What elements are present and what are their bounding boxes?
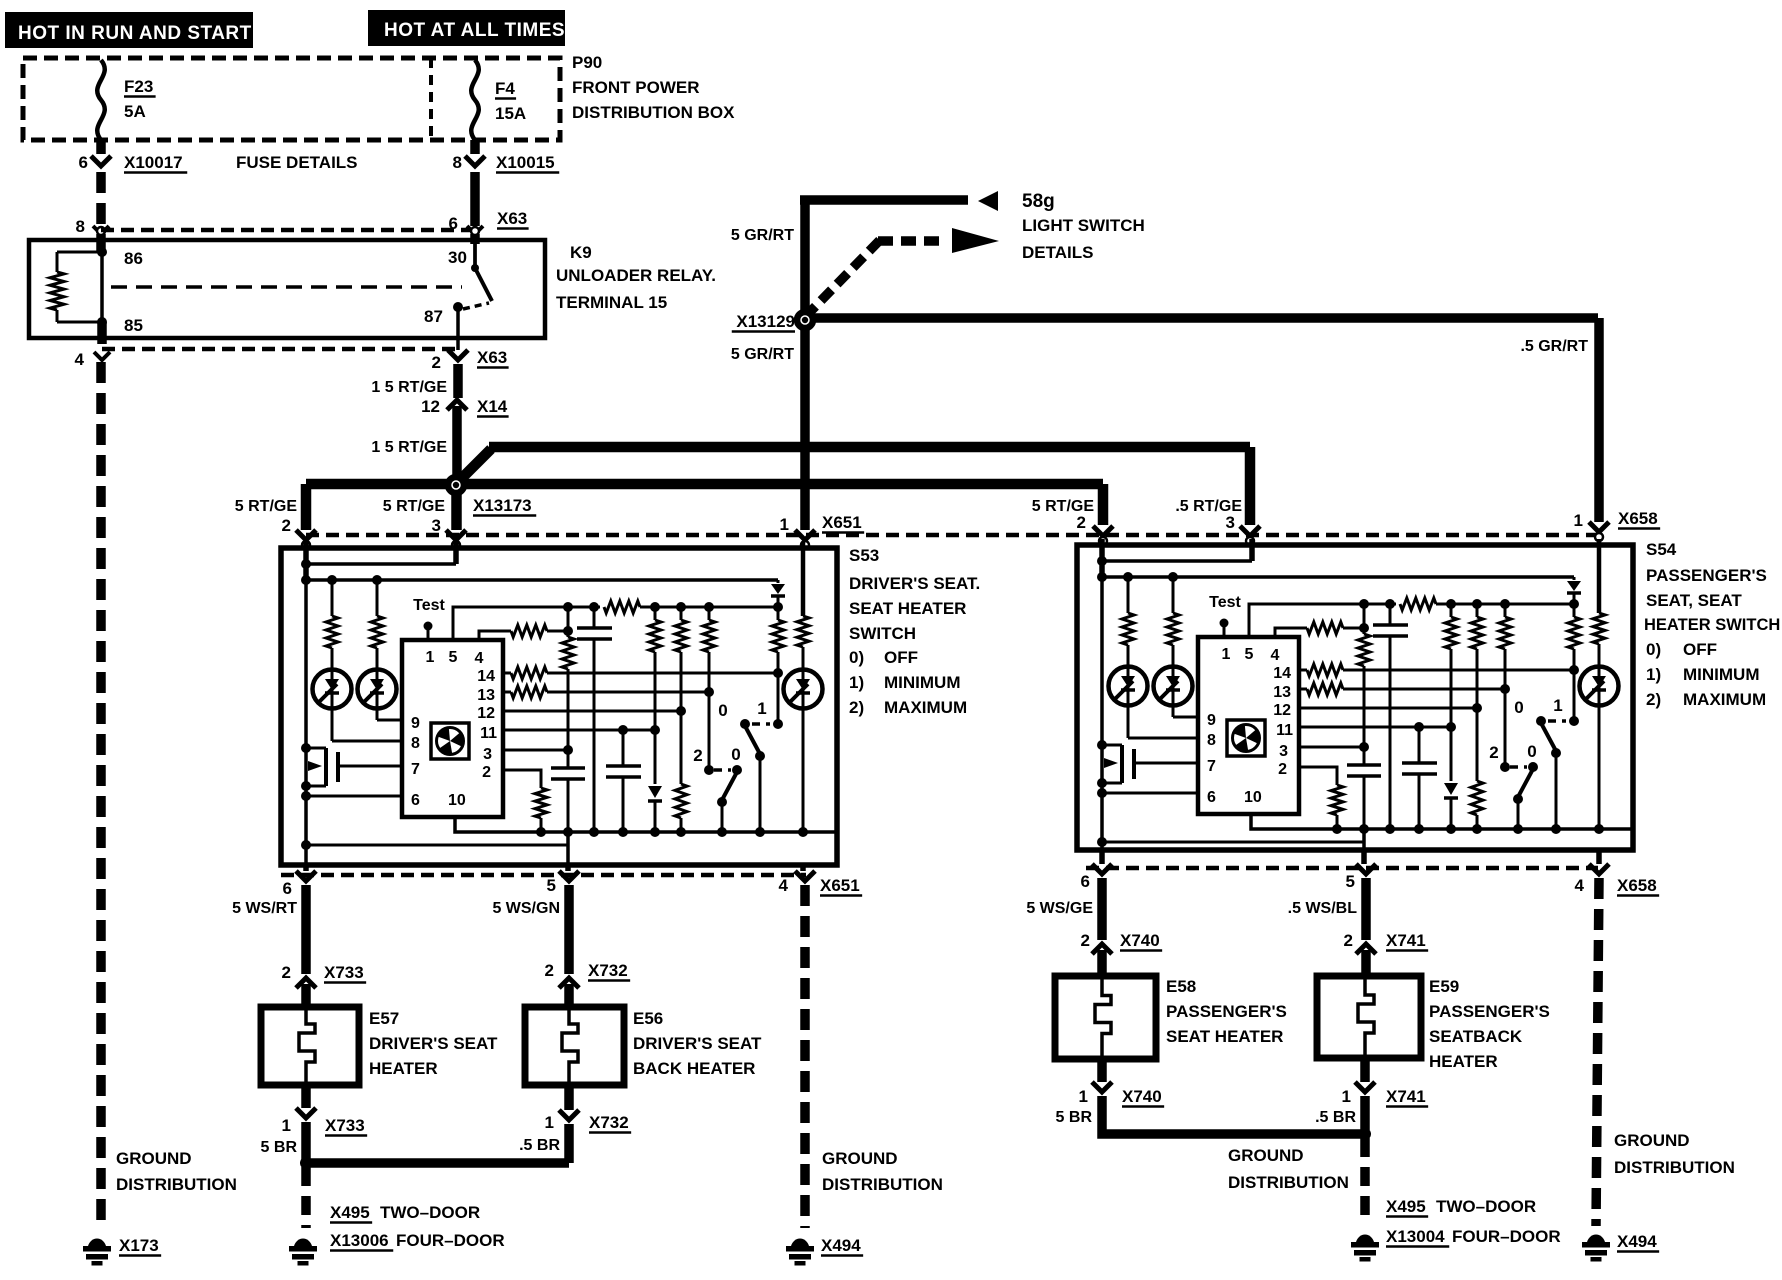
S54 IC pin 11 line xyxy=(1299,726,1451,729)
svg-text:X733: X733 xyxy=(325,1116,365,1135)
svg-text:MAXIMUM: MAXIMUM xyxy=(884,698,967,717)
svg-text:HOT IN RUN AND START: HOT IN RUN AND START xyxy=(18,23,252,44)
connector X63 pin 2 xyxy=(448,350,468,360)
svg-text:FOUR–DOOR: FOUR–DOOR xyxy=(1452,1227,1561,1246)
svg-text:2): 2) xyxy=(849,698,864,717)
svg-text:1: 1 xyxy=(757,699,766,718)
S54 ladder V1 with capacitor C1 xyxy=(1363,604,1366,634)
svg-text:0: 0 xyxy=(731,745,740,764)
connector 4 below relay xyxy=(94,352,110,360)
svg-text:2: 2 xyxy=(432,353,441,372)
S54 IC pin 14 line with resistor xyxy=(1299,669,1307,672)
svg-text:OFF: OFF xyxy=(884,648,918,667)
S53 IC pin 12 line xyxy=(503,710,681,713)
svg-text:2: 2 xyxy=(1278,761,1287,778)
svg-text:0: 0 xyxy=(1514,698,1523,717)
svg-text:87: 87 xyxy=(424,307,443,326)
wire S53 pin5 to X732 xyxy=(564,885,574,974)
S53 capacitor C3 branch xyxy=(622,730,625,766)
svg-text:12: 12 xyxy=(477,705,495,722)
connector X740 xyxy=(1092,944,1112,954)
ground link wire E57-E56 xyxy=(306,1158,569,1168)
S54 IC pin 3 line xyxy=(1299,746,1364,749)
S53 lamp supply rail xyxy=(306,578,778,582)
heater E59 passenger's seatback heater xyxy=(1317,976,1421,1058)
dashed bus under relay xyxy=(102,347,458,352)
svg-text:DRIVER'S SEAT: DRIVER'S SEAT xyxy=(369,1034,498,1053)
svg-text:58g: 58g xyxy=(1022,191,1055,212)
svg-text:X651: X651 xyxy=(820,876,860,895)
dashed wire junction to ground X495 xyxy=(301,1167,311,1228)
S53 lamp C supply xyxy=(801,542,806,616)
svg-text:X494: X494 xyxy=(1617,1232,1657,1251)
S53 switch arm lower xyxy=(722,772,737,800)
svg-text:8: 8 xyxy=(76,217,85,236)
svg-text:6: 6 xyxy=(79,153,88,172)
svg-text:TERMINAL 15: TERMINAL 15 xyxy=(556,293,667,312)
relay coil xyxy=(57,251,102,254)
svg-text:14: 14 xyxy=(1273,665,1291,682)
svg-text:1: 1 xyxy=(426,649,435,666)
svg-text:3: 3 xyxy=(1279,743,1288,760)
svg-text:6: 6 xyxy=(1207,789,1216,806)
fuse F23 5A xyxy=(97,60,105,140)
wire X10015 to X63 xyxy=(470,172,480,226)
svg-text:S54: S54 xyxy=(1646,540,1677,559)
S54 switch contact 2 row xyxy=(1500,762,1510,772)
S53 diode branch D1 xyxy=(777,580,780,583)
S53 wire to IC pin 6 xyxy=(301,791,311,801)
svg-text:X14: X14 xyxy=(477,397,508,416)
svg-text:8: 8 xyxy=(453,153,462,172)
svg-text:15A: 15A xyxy=(495,104,526,123)
S53 fan icon xyxy=(431,723,469,759)
58g dashed arrow xyxy=(805,239,881,317)
connector S53 pin 1 xyxy=(795,530,815,540)
svg-text:E56: E56 xyxy=(633,1009,663,1028)
connector X733 xyxy=(296,978,316,988)
connector X732 lower xyxy=(559,1110,579,1120)
wire F4 to X10015 xyxy=(470,140,480,154)
S54 switch arm upper xyxy=(1541,723,1556,751)
S53 IC pin 4 line with resistor xyxy=(479,631,511,640)
svg-text:3: 3 xyxy=(432,516,441,535)
svg-text:E57: E57 xyxy=(369,1009,399,1028)
S53 ladder V3 resistor and diode xyxy=(654,607,657,620)
svg-text:PASSENGER'S: PASSENGER'S xyxy=(1166,1002,1287,1021)
wire 85 down out of relay xyxy=(97,322,107,344)
svg-text:4: 4 xyxy=(1271,647,1280,664)
58g arrow line xyxy=(800,195,968,205)
heater E56 driver's seat back heater xyxy=(525,1007,624,1085)
svg-text:.5 GR/RT: .5 GR/RT xyxy=(1520,338,1588,355)
svg-text:2: 2 xyxy=(1344,931,1353,950)
wire X10017 down (dashed) xyxy=(96,172,106,224)
S53 wire lamp A to IC pin 8 xyxy=(331,648,334,741)
svg-text:13: 13 xyxy=(1273,684,1291,701)
svg-text:10: 10 xyxy=(1244,789,1262,806)
svg-text:PASSENGER'S: PASSENGER'S xyxy=(1646,566,1767,585)
svg-text:F23: F23 xyxy=(124,77,153,96)
dashed wire to ground X13004 xyxy=(1360,1138,1370,1224)
S54 ladder V4 two resistors xyxy=(1476,604,1479,617)
wire X732 down to ground link xyxy=(564,1124,574,1163)
svg-text:.5 BR: .5 BR xyxy=(519,1137,560,1154)
svg-text:4: 4 xyxy=(75,350,85,369)
svg-text:X651: X651 xyxy=(822,513,862,532)
svg-text:GROUND: GROUND xyxy=(1228,1146,1304,1165)
svg-text:P90: P90 xyxy=(572,53,602,72)
wire X740 into E58 xyxy=(1097,950,1107,976)
S54 wire to IC pin 6 xyxy=(1097,788,1107,798)
fuse box internal dashed separator xyxy=(429,58,433,140)
S54 ladder V3 resistor and diode xyxy=(1450,604,1453,617)
svg-text:85: 85 xyxy=(124,316,143,335)
svg-text:HEATER SWITCH: HEATER SWITCH xyxy=(1644,616,1780,634)
svg-text:LIGHT SWITCH: LIGHT SWITCH xyxy=(1022,216,1145,235)
wire X732 into E56 xyxy=(564,984,574,1007)
svg-text:DISTRIBUTION BOX: DISTRIBUTION BOX xyxy=(572,103,735,122)
svg-text:MINIMUM: MINIMUM xyxy=(884,673,960,692)
bus wire upper to S54 pin 3 xyxy=(489,442,1250,453)
svg-text:2: 2 xyxy=(1081,931,1090,950)
svg-text:GROUND: GROUND xyxy=(1614,1131,1690,1150)
svg-text:5 GR/RT: 5 GR/RT xyxy=(731,346,794,363)
svg-text:S53: S53 xyxy=(849,546,879,565)
wire X733 into E57 xyxy=(301,984,311,1007)
S54 wire pin3 entry xyxy=(1249,539,1255,561)
svg-text:SEATBACK: SEATBACK xyxy=(1429,1027,1523,1046)
svg-text:9: 9 xyxy=(1207,712,1216,729)
svg-text:12: 12 xyxy=(1273,702,1291,719)
wire E56 to X732 lower xyxy=(564,1085,574,1110)
S53 ladder V4 two resistors xyxy=(680,607,683,620)
S53 wire lamp B to IC pin 9 xyxy=(376,648,379,720)
connector S54 pin 4 xyxy=(1589,864,1609,874)
svg-text:DETAILS: DETAILS xyxy=(1022,243,1093,262)
svg-text:X740: X740 xyxy=(1120,931,1160,950)
svg-text:X732: X732 xyxy=(589,1113,629,1132)
svg-text:3: 3 xyxy=(483,746,492,763)
svg-text:5 WS/GE: 5 WS/GE xyxy=(1026,900,1093,917)
wire into relay K9 xyxy=(96,234,106,252)
wire X13129 down to S53 pin 1 xyxy=(800,327,810,530)
S53 pin exits xyxy=(303,865,309,871)
S54 lower-left rail to pin 5 exit xyxy=(1097,837,1107,847)
switch S53 outer box xyxy=(281,548,837,865)
svg-text:X10015: X10015 xyxy=(496,153,555,172)
svg-text:9: 9 xyxy=(411,715,420,732)
connector X733 lower xyxy=(296,1108,316,1118)
connector X740 lower xyxy=(1092,1082,1112,1092)
relay actuation dashed link xyxy=(111,285,462,289)
fuse F4 15A xyxy=(471,60,479,140)
S53 resistor lamp B xyxy=(372,575,382,585)
svg-text:SEAT HEATER: SEAT HEATER xyxy=(1166,1027,1283,1046)
S54 control IC U1 xyxy=(1198,637,1299,814)
connector S53 pin 4 xyxy=(795,871,815,881)
svg-text:0): 0) xyxy=(849,648,864,667)
svg-text:5A: 5A xyxy=(124,102,146,121)
svg-text:6: 6 xyxy=(411,792,420,809)
svg-text:DISTRIBUTION: DISTRIBUTION xyxy=(116,1175,237,1194)
S54 lamp supply rail xyxy=(1102,575,1574,579)
S54 indicator lamp B xyxy=(1154,667,1193,706)
relay terminal 87 xyxy=(453,302,463,312)
S54 indicator lamp A xyxy=(1109,667,1148,706)
svg-text:X741: X741 xyxy=(1386,931,1426,950)
connector S53 pin 5 xyxy=(559,871,579,881)
svg-text:Test: Test xyxy=(1209,594,1241,611)
svg-text:X658: X658 xyxy=(1617,876,1657,895)
S53 indicator lamp A xyxy=(313,670,352,709)
S53 IC pin 5 rail xyxy=(453,607,600,640)
S53 transistor Q1 xyxy=(306,747,326,750)
svg-text:SWITCH: SWITCH xyxy=(849,624,916,643)
junction dot ground link left xyxy=(300,1157,312,1169)
svg-text:1 5 RT/GE: 1 5 RT/GE xyxy=(371,379,447,396)
S53 IC pin 11 line xyxy=(503,729,655,732)
S54 ladder V5 resistor to switch contact 2 xyxy=(1504,604,1507,617)
dashed wire to X63 row xyxy=(101,228,475,233)
svg-text:1: 1 xyxy=(1079,1087,1088,1106)
svg-text:E59: E59 xyxy=(1429,977,1459,996)
connector S53 pin 2 xyxy=(296,530,316,540)
svg-text:2: 2 xyxy=(1077,513,1086,532)
S53 switch contact 2 row xyxy=(704,765,714,775)
wire node X13173 to S53 pin 3 xyxy=(451,490,461,530)
svg-text:FOUR–DOOR: FOUR–DOOR xyxy=(396,1231,505,1250)
svg-text:HEATER: HEATER xyxy=(1429,1052,1498,1071)
connector S54 pin 5 xyxy=(1356,864,1376,874)
svg-text:6: 6 xyxy=(283,879,292,898)
svg-text:5: 5 xyxy=(547,876,556,895)
svg-text:MINIMUM: MINIMUM xyxy=(1683,665,1759,684)
svg-text:X495: X495 xyxy=(330,1203,370,1222)
svg-text:1: 1 xyxy=(780,515,789,534)
ground distribution wire left (dashed) xyxy=(96,362,106,1228)
wire X13129 to X658 (top right) xyxy=(810,313,1598,323)
svg-text:1: 1 xyxy=(282,1116,291,1135)
svg-text:5 RT/GE: 5 RT/GE xyxy=(383,498,446,515)
svg-text:DRIVER'S SEAT.: DRIVER'S SEAT. xyxy=(849,574,980,593)
S54 resistor lamp B xyxy=(1168,572,1178,582)
svg-text:GROUND: GROUND xyxy=(116,1149,192,1168)
svg-text:1: 1 xyxy=(1574,511,1583,530)
svg-text:X63: X63 xyxy=(477,348,507,367)
switch S54 outer box xyxy=(1077,545,1633,850)
S54 resistor lamp A xyxy=(1123,572,1133,582)
svg-text:1: 1 xyxy=(1342,1087,1351,1106)
svg-text:.5 BR: .5 BR xyxy=(1315,1109,1356,1126)
wire S54 pin6 to X740 xyxy=(1097,878,1107,940)
svg-text:1): 1) xyxy=(849,673,864,692)
bus diagonal at node X13173 xyxy=(453,449,491,487)
svg-text:12: 12 xyxy=(421,397,440,416)
heater E57 driver's seat heater xyxy=(261,1007,359,1085)
svg-text:K9: K9 xyxy=(570,243,592,262)
S54 switch arm lower xyxy=(1518,769,1533,797)
ground X173 xyxy=(88,1239,106,1246)
wire X740 to ground link right xyxy=(1102,1096,1362,1134)
ground X494 right xyxy=(1587,1235,1605,1242)
svg-text:2: 2 xyxy=(545,961,554,980)
connector S53 pin 3 xyxy=(446,530,466,540)
junction dot ground link right xyxy=(1359,1128,1371,1140)
svg-text:X13006: X13006 xyxy=(330,1231,389,1250)
connector S54 pin 2 xyxy=(1093,526,1113,536)
svg-text:PASSENGER'S: PASSENGER'S xyxy=(1429,1002,1550,1021)
S53 ladder V2 with capacitor C2 xyxy=(593,607,596,628)
svg-text:5 RT/GE: 5 RT/GE xyxy=(235,498,298,515)
connector S54 pin 1 xyxy=(1589,522,1609,532)
wire X63 to X14 xyxy=(453,364,463,398)
S54 IC pin 13 line with resistor xyxy=(1299,688,1307,691)
svg-text:1: 1 xyxy=(1553,696,1562,715)
svg-text:8: 8 xyxy=(1207,732,1216,749)
relay coil terminal 86 xyxy=(97,247,107,257)
svg-text:5: 5 xyxy=(1245,646,1254,663)
wire S54 pin5 to X741 xyxy=(1361,878,1371,940)
svg-text:2: 2 xyxy=(482,764,491,781)
svg-text:1: 1 xyxy=(1222,646,1231,663)
svg-text:FRONT POWER: FRONT POWER xyxy=(572,78,700,97)
svg-text:HOT AT ALL TIMES: HOT AT ALL TIMES xyxy=(384,20,565,41)
svg-text:6: 6 xyxy=(449,214,458,233)
svg-text:5 BR: 5 BR xyxy=(261,1139,298,1156)
S54 indicator lamp C xyxy=(1580,667,1619,706)
connector S53 pin 6 xyxy=(296,871,316,881)
S54 switch contact 1 row xyxy=(1536,716,1546,726)
svg-text:DISTRIBUTION: DISTRIBUTION xyxy=(822,1175,943,1194)
wire S53 pin6 to X733 xyxy=(301,885,311,974)
wire 87 down to X63 pin 2 xyxy=(456,307,460,350)
svg-text:TWO–DOOR: TWO–DOOR xyxy=(380,1203,480,1222)
S53 switch contact 1 row xyxy=(740,719,750,729)
S54 diode branch D1 xyxy=(1573,577,1576,580)
svg-text:5: 5 xyxy=(449,649,458,666)
ground X494 left xyxy=(791,1239,809,1246)
S53 wire pin2 left vertical xyxy=(303,542,309,580)
S54 IC pin 4 line with resistor xyxy=(1275,628,1307,637)
S53 indicator lamp B xyxy=(358,670,397,709)
svg-text:X63: X63 xyxy=(497,209,527,228)
svg-text:DISTRIBUTION: DISTRIBUTION xyxy=(1614,1158,1735,1177)
svg-text:DISTRIBUTION: DISTRIBUTION xyxy=(1228,1173,1349,1192)
svg-text:86: 86 xyxy=(124,249,143,268)
header label HOT AT ALL TIMES xyxy=(368,10,565,46)
dashed connector row S54 bottom xyxy=(1086,866,1598,871)
wire X63 into relay xyxy=(470,234,480,244)
S54 fan icon xyxy=(1227,720,1265,756)
svg-text:HEATER: HEATER xyxy=(369,1059,438,1078)
svg-text:8: 8 xyxy=(411,735,420,752)
connector X10015 xyxy=(465,156,485,166)
svg-text:MAXIMUM: MAXIMUM xyxy=(1683,690,1766,709)
S53 ladder V5 resistor to switch contact 2 xyxy=(708,607,711,620)
svg-text:Test: Test xyxy=(413,597,445,614)
svg-text:X13173: X13173 xyxy=(473,496,532,515)
svg-text:X13004: X13004 xyxy=(1386,1227,1445,1246)
connector X732 xyxy=(559,978,579,988)
S54 capacitor C3 branch xyxy=(1418,727,1421,763)
bus wire lower to S54 pin 2 xyxy=(306,479,1103,490)
dashed connector row S53 bottom xyxy=(281,873,806,878)
svg-text:X173: X173 xyxy=(119,1236,159,1255)
S53 resistor lamp A xyxy=(327,575,337,585)
wire X14 down to node X13173 xyxy=(452,406,462,530)
S54 IC pin 12 line xyxy=(1299,707,1477,710)
svg-text:2: 2 xyxy=(693,746,702,765)
relay K9 box xyxy=(29,240,545,338)
svg-text:1 5 RT/GE: 1 5 RT/GE xyxy=(371,439,447,456)
connector X14 pin 12 xyxy=(447,400,467,410)
wire E58 to X740 lower xyxy=(1097,1059,1107,1082)
node X13129 xyxy=(797,312,813,328)
svg-text:E58: E58 xyxy=(1166,977,1196,996)
S54 pin exits xyxy=(1099,850,1105,864)
S54 ladder V2 with capacitor C2 xyxy=(1389,604,1392,625)
S53 IC pin 2 line with resistor to bus xyxy=(503,770,541,788)
relay coil terminal 85 xyxy=(97,317,107,327)
svg-text:5 BR: 5 BR xyxy=(1056,1109,1093,1126)
svg-text:X741: X741 xyxy=(1386,1087,1426,1106)
connector S54 pin 6 xyxy=(1092,864,1112,874)
S54 wire lamp B to IC pin 9 xyxy=(1172,645,1175,717)
svg-text:11: 11 xyxy=(480,725,497,742)
node 8 at dashed line xyxy=(93,226,109,234)
svg-text:5 GR/RT: 5 GR/RT xyxy=(731,227,794,244)
S53 IC pin 10 to bottom bus xyxy=(455,817,835,832)
svg-text:2: 2 xyxy=(1489,743,1498,762)
dashed connector row top xyxy=(306,533,1598,538)
svg-text:DRIVER'S SEAT: DRIVER'S SEAT xyxy=(633,1034,762,1053)
S54 IC pin 5 rail xyxy=(1249,604,1396,637)
S54 wire lamp A to IC pin 8 xyxy=(1127,645,1130,738)
S53 lower-left rail to pin 5 exit xyxy=(301,840,311,850)
svg-text:4: 4 xyxy=(475,650,484,667)
svg-text:1: 1 xyxy=(545,1113,554,1132)
heater E58 passenger's seat heater xyxy=(1055,976,1156,1059)
S53 indicator lamp C xyxy=(784,670,823,709)
svg-text:0): 0) xyxy=(1646,640,1661,659)
connector X10017 xyxy=(91,156,111,166)
connector X741 lower xyxy=(1355,1082,1375,1092)
wire X733 down to junction xyxy=(301,1122,311,1160)
S53 lamp C to bus xyxy=(802,647,805,832)
header label HOT IN RUN AND START xyxy=(5,12,253,48)
S54 lamp C to bus xyxy=(1598,644,1601,829)
connector S54 pin 3 xyxy=(1240,526,1260,536)
svg-text:X495: X495 xyxy=(1386,1197,1426,1216)
wire 86 to 85 through relay xyxy=(100,240,104,322)
S53 switch arm upper xyxy=(745,726,760,754)
svg-text:X13129: X13129 xyxy=(736,312,795,331)
wire E57 to X733 lower xyxy=(301,1085,311,1108)
svg-text:1): 1) xyxy=(1646,665,1661,684)
svg-text:X10017: X10017 xyxy=(124,153,183,172)
svg-text:30: 30 xyxy=(448,248,467,267)
svg-text:2: 2 xyxy=(282,963,291,982)
S54 lamp C supply xyxy=(1597,539,1602,613)
svg-text:X658: X658 xyxy=(1618,509,1658,528)
svg-text:UNLOADER RELAY.: UNLOADER RELAY. xyxy=(556,266,716,285)
svg-text:7: 7 xyxy=(411,761,420,778)
svg-text:.5 WS/BL: .5 WS/BL xyxy=(1288,900,1358,917)
svg-text:7: 7 xyxy=(1207,758,1216,775)
relay armature xyxy=(475,268,492,301)
ground X495/X13006 xyxy=(294,1239,312,1246)
